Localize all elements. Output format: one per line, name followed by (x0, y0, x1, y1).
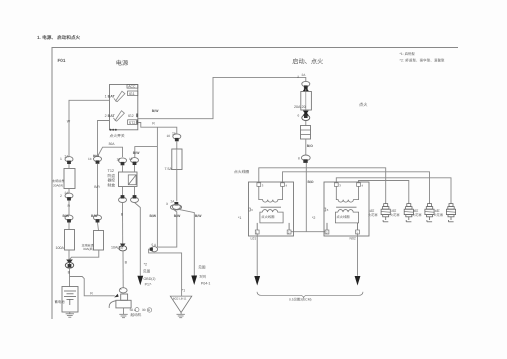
svg-text:P17·: P17· (145, 282, 153, 286)
connector 1 (column 1) (60, 155, 73, 164)
wire connector16 right leg B/W to ECM arrow (180, 210, 203, 276)
svg-text:30A(M): 30A(M) (53, 183, 63, 187)
svg-text:器控: 器控 (108, 178, 116, 183)
svg-text:B/W: B/W (150, 214, 157, 218)
immobilizer box T12 (119, 165, 138, 187)
reference arrow to figure 3(B) (191, 276, 197, 286)
svg-text:启动、点火: 启动、点火 (292, 57, 323, 65)
svg-text:BQ2 LB-11: BQ2 LB-11 (173, 296, 187, 300)
svg-text:2 BAT: 2 BAT (105, 114, 116, 118)
svg-text:B/W: B/W (195, 214, 202, 218)
svg-text:B/R: B/R (94, 185, 100, 189)
wire T12 right output to OBD arrow (135, 203, 141, 276)
spark plug 1 (381, 204, 390, 222)
svg-text:2: 2 (60, 194, 62, 198)
svg-text:30A(启): 30A(启) (83, 247, 94, 251)
connector BK1 (column 2) (88, 154, 102, 164)
spark plug 2 (404, 204, 413, 222)
body ground triangle (170, 296, 192, 312)
wire BAT2 to BK1 column (98, 121, 110, 157)
starter M1 motor body (116, 300, 131, 308)
SW1 contact lever lower (113, 111, 124, 121)
svg-text:ST2: ST2 (129, 121, 136, 125)
svg-text:B/O: B/O (307, 144, 313, 148)
connector 13 (T12 output left) (119, 195, 127, 202)
svg-text:B/W: B/W (174, 214, 181, 218)
svg-text:*2: 舒适型、豪华型、温馨型: *2: 舒适型、豪华型、温馨型 (400, 59, 446, 63)
label 2缸火花塞 (390, 209, 400, 217)
svg-text:*1: 启悦型: *1: 启悦型 (400, 52, 416, 56)
starter terminal labels 50 / 30 (130, 308, 152, 313)
SW1 terminal IG1 (128, 91, 138, 96)
starter M1: connector 5 (119, 287, 127, 293)
connector 5 (inline, ground lead) (150, 243, 158, 252)
wire label B (starter solenoid feed) (121, 203, 124, 244)
svg-text:8: 8 (298, 157, 300, 161)
arrow label P04-1 (198, 265, 210, 285)
svg-text:主熔丝盒: 主熔丝盒 (52, 179, 65, 183)
battery cable to starter (R) (70, 277, 115, 296)
svg-text:B/W: B/W (91, 214, 98, 218)
battery BT1 (62, 287, 78, 313)
T12 label text (108, 169, 116, 187)
ghost label 主熔丝盒 30A(启) (82, 243, 95, 251)
coil supply cross wire (291, 231, 325, 233)
svg-text:火花塞: 火花塞 (368, 213, 378, 217)
fuse F5 20A (301, 89, 312, 110)
svg-text:30: 30 (142, 308, 146, 312)
wire coil N02 pin1 to ECM (357, 234, 359, 276)
svg-text:1 BAT: 1 BAT (105, 95, 116, 99)
coil N02 pin labels (326, 183, 364, 234)
inline connector pair 10A(qi) (111, 244, 127, 251)
wire F2 to junction connector (68, 250, 70, 260)
svg-text:1: 1 (60, 157, 62, 161)
frame border (top and left edges) (52, 48, 458, 320)
inline connector pair 6 (298, 110, 310, 121)
svg-text:IG2: IG2 (128, 114, 134, 118)
svg-text:L01: L01 (251, 236, 257, 240)
svg-text:20A·20: 20A·20 (294, 105, 306, 109)
SW1 terminal ACC (127, 85, 138, 89)
wire B/W from IG2 to 20A fuse (138, 77, 306, 118)
svg-text:N02: N02 (350, 236, 356, 240)
svg-text:火花塞: 火花塞 (390, 213, 400, 217)
svg-text:1. 电源、 启动和点火: 1. 电源、 启动和点火 (37, 35, 81, 40)
svg-text:B: B (148, 308, 150, 312)
svg-text:P04-1: P04-1 (201, 282, 211, 286)
battery junction connector pair (65, 260, 73, 269)
high tension bus to plug 4 (336, 178, 451, 204)
battery ground (66, 312, 74, 317)
svg-text:6: 6 (298, 114, 300, 118)
reference arrow to OBD connector (137, 276, 143, 286)
wire label B/O upper (306, 139, 313, 155)
joint connector block (301, 121, 311, 140)
T12 bottom stubs (123, 187, 135, 198)
svg-text:点火线圈: 点火线圈 (336, 215, 350, 219)
ghost label 主熔丝盒 30A(M) (52, 179, 65, 188)
wire BAT1 to fuse column (69, 100, 110, 157)
starter M1 brush arc (109, 301, 115, 308)
label 3缸火花塞 (412, 209, 422, 217)
svg-text:点火线圈: 点火线圈 (234, 169, 249, 174)
svg-text:ACC: ACC (128, 85, 136, 89)
svg-text:100A: 100A (56, 246, 65, 250)
connector 14 (T12 output right) (131, 195, 139, 202)
wire connector 12 to starter signal line (133, 147, 158, 158)
connector 3 (column 1, B/W) (63, 214, 74, 223)
connector 16 (3 2A) (166, 200, 182, 210)
svg-text:0.5见图3(ECM): 0.5见图3(ECM) (289, 298, 312, 302)
svg-text:火花塞: 火花塞 (434, 213, 444, 217)
svg-text:见图: 见图 (143, 270, 151, 274)
svg-text:R: R (90, 292, 93, 296)
starter-signal tap wire B/W (from R line down) (150, 127, 158, 247)
high tension bus to plug 3 (283, 172, 430, 204)
svg-text:起动机: 起动机 (131, 312, 142, 317)
svg-text:30A: 30A (109, 142, 116, 146)
svg-text:点火开关: 点火开关 (110, 133, 125, 138)
svg-text:蓄电池: 蓄电池 (55, 300, 66, 304)
OBD arrow label (143, 263, 155, 287)
svg-text:2: 2 (297, 75, 299, 79)
starter M1 solenoid plunger (121, 294, 128, 300)
svg-text:B/W: B/W (63, 214, 70, 218)
svg-text:F01: F01 (58, 58, 66, 63)
high tension bus to plug 2 (359, 181, 409, 204)
wire label B (68, 269, 71, 287)
svg-text:B/W: B/W (133, 151, 140, 155)
SW1 terminal ST2 (128, 120, 138, 125)
svg-text:OBD(J): OBD(J) (144, 277, 156, 281)
wire connector5 to body ground triangle (149, 249, 182, 296)
svg-text:见图: 见图 (198, 265, 206, 269)
SW1 bottom terminal dots (110, 129, 117, 131)
ECM arrow right (355, 276, 361, 286)
starter M1 solenoid contact arrow (114, 294, 118, 298)
high tension bus to plug 1 (259, 168, 386, 204)
fuse F1 30A(M) (64, 164, 75, 189)
ECM arrow left (254, 276, 260, 286)
svg-text:*2: *2 (144, 263, 147, 267)
svg-text:火花塞: 火花塞 (412, 213, 422, 217)
ignition switch SW1 box (110, 85, 138, 130)
fuse F2 100A (65, 223, 75, 251)
connector 10 (T12 input left) (117, 158, 127, 166)
svg-text:W: W (67, 120, 71, 124)
svg-text:IG1: IG1 (129, 92, 135, 96)
svg-text:3: 3 (166, 202, 168, 206)
svg-text:12: 12 (129, 157, 133, 161)
wire connector16 left leg B/W (157, 210, 181, 248)
fuse F3 30A(qi) (94, 223, 104, 251)
svg-text:1b: 1b (88, 157, 92, 161)
wire label R (68, 201, 71, 216)
wire BK1 to T12 connector 10 (98, 147, 123, 157)
svg-text:R: R (152, 122, 155, 126)
wire coil L01 pin1 to ECM (256, 234, 258, 276)
connector 17 (2 2A) (297, 73, 310, 91)
svg-text:B/W: B/W (152, 109, 159, 113)
fuse F4 7.5A (172, 141, 182, 170)
SW1 contact lever upper (114, 91, 125, 101)
svg-text:10: 10 (167, 134, 171, 138)
svg-text:B/O: B/O (308, 180, 314, 184)
label 4缸火花塞 (434, 209, 444, 217)
svg-text:10: 10 (117, 158, 121, 162)
spark plug 3 (425, 204, 434, 222)
wire R from ST2 to fuse F4 (138, 122, 177, 135)
ignition coil L01 (left, *1) (249, 182, 294, 236)
SW1 terminal IG2 (128, 114, 138, 119)
connector 4 (column 2, B/W) (91, 214, 102, 223)
connector 2 (column 1) (60, 191, 73, 200)
svg-text:T12: T12 (108, 169, 115, 173)
label 1缸火花塞 (368, 209, 378, 217)
svg-text:7.5A: 7.5A (165, 167, 173, 171)
ignition coil N02 (right, *2) (324, 182, 369, 236)
ground symbol under triangle (177, 313, 185, 318)
svg-text:*1: *1 (182, 288, 185, 292)
svg-text:点火线圈: 点火线圈 (261, 215, 275, 219)
wire label B to starter (123, 251, 128, 288)
svg-text:R: R (68, 204, 71, 208)
svg-text:3(B): 3(B) (199, 274, 206, 278)
wire label B/O lower (to coils) (306, 163, 314, 232)
svg-text:电源: 电源 (116, 59, 128, 67)
starter ground (119, 308, 127, 318)
wire label B/R (94, 164, 100, 215)
wire F3 to battery junction (70, 250, 99, 259)
wire F4 to connector 16 (176, 170, 178, 202)
wire F1 to connector 2 (68, 189, 70, 194)
spark plug 4 (446, 204, 455, 222)
svg-text:制盒: 制盒 (108, 182, 116, 187)
svg-text:*2: *2 (312, 216, 315, 220)
connector 15 (10 2A) (167, 131, 181, 141)
connector 12 (T12 input right) (129, 157, 139, 165)
svg-text:防盗: 防盗 (108, 173, 116, 178)
connector 8 (298, 155, 310, 163)
coil L01 pin labels (251, 183, 290, 234)
svg-text:*1: *1 (238, 216, 241, 220)
svg-text:点火: 点火 (359, 102, 368, 107)
brace to ECM (257, 292, 363, 298)
